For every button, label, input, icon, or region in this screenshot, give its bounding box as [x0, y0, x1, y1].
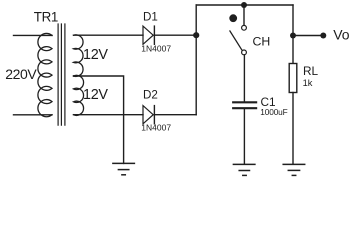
wire D1 cathode to rail	[154, 34, 196, 36]
wire cathode rail vertical	[195, 5, 197, 115]
transformer TR1 secondary winding lower	[74, 75, 84, 115]
wire primary bottom lead	[14, 114, 53, 116]
capacitor C1	[233, 102, 256, 108]
svg-text:CH: CH	[253, 35, 271, 49]
svg-text:TR1: TR1	[34, 9, 58, 24]
svg-text:12V: 12V	[83, 47, 108, 63]
wire resistor to ground	[292, 93, 294, 165]
switch CH	[229, 14, 246, 55]
wire D2 cathode to rail	[154, 114, 196, 116]
node junction D1 cathode / rail	[193, 32, 199, 38]
wire center tap to ground	[74, 76, 124, 163]
svg-text:Vo: Vo	[333, 27, 350, 43]
svg-text:D1: D1	[143, 11, 158, 24]
resistor RL	[289, 64, 297, 93]
wire switch to capacitor	[243, 55, 245, 102]
wire top bus	[196, 4, 293, 6]
wire primary top lead	[14, 34, 53, 36]
svg-text:D2: D2	[143, 89, 158, 102]
svg-text:12V: 12V	[83, 87, 108, 103]
wire bus to switch top contact	[243, 5, 245, 25]
svg-text:1000uF: 1000uF	[260, 107, 287, 117]
ground resistor	[283, 164, 305, 175]
node junction switch / bus	[241, 2, 247, 8]
transformer TR1 secondary winding upper	[74, 35, 84, 77]
svg-text:1k: 1k	[303, 78, 313, 88]
svg-text:1N4007: 1N4007	[141, 44, 171, 54]
wire Vo stub	[293, 35, 323, 37]
wire secondary top to D1 anode	[74, 34, 144, 36]
svg-text:RL: RL	[303, 64, 319, 78]
diode D2	[143, 106, 154, 124]
ground capacitor	[233, 164, 255, 175]
svg-text:220V: 220V	[5, 66, 37, 82]
wire capacitor to ground	[243, 108, 245, 164]
transformer core	[58, 24, 65, 125]
diode D1	[143, 26, 154, 44]
wire secondary bottom to D2 anode	[74, 114, 144, 116]
node Vo terminal	[320, 33, 326, 39]
node junction Vo / rail	[290, 33, 296, 39]
transformer TR1 primary winding	[38, 33, 52, 116]
wire right rail down	[292, 5, 294, 64]
svg-text:1N4007: 1N4007	[141, 123, 171, 133]
ground center tap	[113, 163, 134, 174]
